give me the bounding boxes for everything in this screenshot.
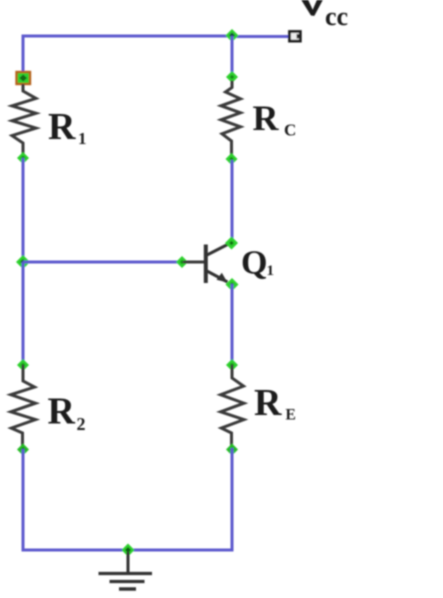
wire bottom rail <box>22 549 234 552</box>
svg-text:2: 2 <box>77 414 86 434</box>
resistor R1 <box>12 84 36 156</box>
node R2 top <box>17 359 29 371</box>
node RE bottom <box>226 444 238 456</box>
wire left vertical lower2 <box>22 449 25 550</box>
svg-text:R: R <box>253 98 280 138</box>
svg-text:cc: cc <box>325 2 348 31</box>
label RE <box>254 382 296 424</box>
node collector <box>225 237 238 250</box>
node RC bottom <box>226 153 238 165</box>
resistor RE <box>221 365 244 447</box>
wire right vertical lower <box>231 448 234 550</box>
svg-text:E: E <box>286 407 296 424</box>
label R2 <box>48 391 86 435</box>
wire right vertical upper <box>231 36 234 77</box>
wire top rail <box>23 35 232 38</box>
svg-text:R: R <box>48 106 76 148</box>
resistor RC <box>221 81 241 156</box>
wire base lead <box>183 261 205 264</box>
label R1 <box>48 106 87 148</box>
wire left vertical middle <box>22 158 25 262</box>
wire right vertical emitter <box>231 284 234 366</box>
terminal Vcc <box>290 32 301 42</box>
wire left vertical lower1 <box>22 262 25 366</box>
transistor Q1 <box>206 244 230 284</box>
svg-text:Q: Q <box>241 245 267 282</box>
node R1 bottom <box>17 152 29 164</box>
label Vcc <box>301 0 348 31</box>
node RE top <box>226 359 238 371</box>
svg-text:R: R <box>254 382 282 424</box>
wire left vertical upper <box>22 35 25 73</box>
node R2 bottom <box>17 444 29 456</box>
terminal R1 top <box>17 72 31 84</box>
node RC top <box>226 71 238 83</box>
svg-text:R: R <box>48 391 76 433</box>
node emitter <box>226 278 239 291</box>
node base junction <box>16 255 30 269</box>
wire right vertical collector <box>231 160 234 243</box>
wire middle horizontal <box>23 261 182 264</box>
node top junction <box>226 29 239 42</box>
label RC <box>253 98 297 140</box>
node ground junction <box>122 544 135 557</box>
resistor R2 <box>11 365 36 447</box>
wire Vcc stub <box>232 35 289 38</box>
svg-text:C: C <box>284 121 296 140</box>
svg-text:1: 1 <box>78 129 87 148</box>
ground <box>99 552 153 589</box>
svg-text:1: 1 <box>267 263 275 279</box>
node base wire dot <box>176 256 188 268</box>
label Q1 <box>241 245 274 282</box>
